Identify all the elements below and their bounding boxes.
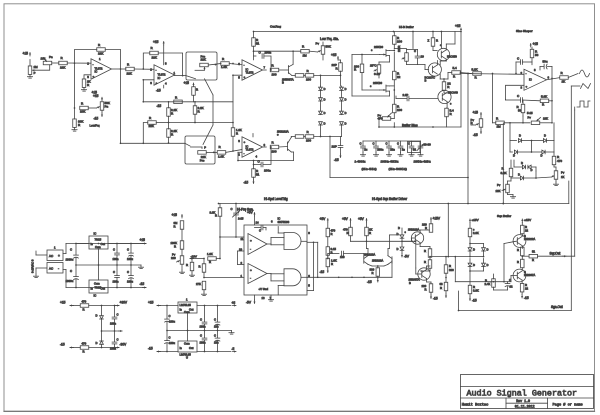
wire xyxy=(317,242,319,277)
svg-text:+15: +15 xyxy=(140,238,146,242)
capacitor C15 100n xyxy=(115,252,120,254)
wire xyxy=(522,140,532,142)
svg-text:-: - xyxy=(93,62,94,66)
svg-text:22: 22 xyxy=(525,229,529,233)
resistor R55 220 xyxy=(429,284,433,293)
svg-text:D: D xyxy=(398,226,400,230)
capacitor C 1n xyxy=(398,145,403,147)
svg-text:D: D xyxy=(521,161,523,165)
resistor R15 100 xyxy=(270,68,279,72)
wire xyxy=(378,62,380,65)
wire xyxy=(157,305,178,307)
ground xyxy=(400,153,402,155)
transistor Q12 2N2222A xyxy=(513,235,526,248)
resistor R49 cmp xyxy=(326,247,330,256)
svg-text:1M: 1M xyxy=(497,125,502,129)
diode D4 xyxy=(319,122,323,125)
svg-text:+15: +15 xyxy=(331,53,337,57)
power +5V terminal xyxy=(366,219,368,223)
diode D11 xyxy=(514,150,517,154)
power +15 terminal xyxy=(101,97,103,101)
svg-text:IC: IC xyxy=(158,76,161,80)
wire xyxy=(440,32,442,49)
svg-text:0-18VAC 0: 0-18VAC 0 xyxy=(31,259,35,273)
wire xyxy=(35,65,50,70)
wire xyxy=(35,268,37,274)
wire xyxy=(393,90,395,104)
svg-text:100u: 100u xyxy=(169,341,175,345)
wire xyxy=(254,161,262,165)
svg-text:C: C xyxy=(117,313,119,317)
svg-text:1u: 1u xyxy=(364,148,368,152)
wire xyxy=(121,142,186,144)
wire xyxy=(270,274,272,281)
svg-text:50u: 50u xyxy=(543,60,548,64)
svg-text:D: D xyxy=(324,87,326,91)
svg-text:2-15: 2-15 xyxy=(238,217,244,221)
wire buffer bias rail xyxy=(379,126,461,128)
capacitor C23 100n xyxy=(202,321,207,323)
wire xyxy=(460,32,462,128)
ground xyxy=(362,153,364,155)
potentiometer P6 10K xyxy=(506,184,510,193)
svg-text:5.1K: 5.1K xyxy=(472,68,478,72)
diode D12 xyxy=(542,150,545,154)
svg-text:D: D xyxy=(345,111,347,115)
wire pin9 out xyxy=(307,241,318,243)
svg-text:C: C xyxy=(169,336,171,340)
svg-text:+5V: +5V xyxy=(342,217,349,221)
svg-text:D: D xyxy=(397,232,399,236)
svg-text:C: C xyxy=(127,248,129,252)
svg-text:-30V: -30V xyxy=(120,343,128,347)
svg-text:-15: -15 xyxy=(140,282,145,286)
wire sgn out xyxy=(459,310,572,312)
wire xyxy=(448,72,452,74)
svg-text:Pn: Pn xyxy=(49,55,53,59)
wire xyxy=(401,250,403,253)
trimmer VR5 220R xyxy=(405,53,409,62)
potentiometer P4 50K xyxy=(321,46,325,55)
svg-text:C: C xyxy=(113,248,115,252)
wire xyxy=(267,243,271,245)
wire xyxy=(429,257,431,260)
svg-text:22K: 22K xyxy=(201,58,206,62)
svg-text:+: + xyxy=(250,268,252,272)
wire xyxy=(163,45,165,65)
jfet Q3 2SK30 xyxy=(385,50,387,57)
svg-text:R: R xyxy=(83,308,85,312)
svg-text:100: 100 xyxy=(340,255,345,259)
wire xyxy=(340,137,342,146)
svg-text:R: R xyxy=(174,225,176,229)
svg-text:100: 100 xyxy=(306,139,311,143)
wire xyxy=(63,253,66,255)
wire xyxy=(430,292,432,295)
border bottom edge xyxy=(4,410,595,412)
capacitor C12 22 xyxy=(505,283,510,285)
svg-text:Out: Out xyxy=(101,287,106,291)
wire xyxy=(194,114,196,122)
svg-text:-15: -15 xyxy=(473,133,478,137)
resistor R36 1M xyxy=(496,121,505,125)
wire xyxy=(406,50,408,53)
resistor R29 22 xyxy=(442,82,446,91)
svg-text:D: D xyxy=(541,154,543,158)
svg-text:D: D xyxy=(345,98,347,102)
transistor Q10 2N2222A xyxy=(411,232,423,244)
svg-text:-5V: -5V xyxy=(404,255,410,259)
svg-text:51: 51 xyxy=(256,42,260,46)
svg-text:U: U xyxy=(186,356,188,360)
resistor R16 1.0K xyxy=(217,151,226,155)
power -15 terminal xyxy=(101,113,103,117)
svg-text:-15: -15 xyxy=(148,347,153,351)
wire com2 xyxy=(187,331,189,342)
resistor R25 22 xyxy=(393,71,397,80)
svg-text:IC: IC xyxy=(95,70,98,74)
wire xyxy=(168,116,170,129)
wire xyxy=(540,66,544,68)
wire xyxy=(532,140,544,142)
zener D22 xyxy=(100,316,104,319)
diode D20 xyxy=(468,263,472,266)
ground xyxy=(83,88,85,90)
svg-text:+15: +15 xyxy=(60,301,66,305)
wire xyxy=(157,351,178,353)
wire xyxy=(208,64,221,66)
svg-text:100n: 100n xyxy=(200,325,206,329)
wire xyxy=(361,73,363,91)
resistor R45 27K xyxy=(202,281,206,290)
svg-text:+5: +5 xyxy=(232,301,236,305)
svg-text:11: 11 xyxy=(241,237,244,241)
wire xyxy=(254,55,257,57)
wire xyxy=(313,242,315,290)
svg-text:D: D xyxy=(324,98,326,102)
svg-text:+5V: +5V xyxy=(358,217,365,221)
wire xyxy=(253,165,255,169)
resistor R65 22 xyxy=(520,283,524,292)
svg-text:300: 300 xyxy=(449,268,454,272)
svg-text:C: C xyxy=(214,334,216,338)
capacitor C18 100u xyxy=(129,275,134,277)
wire xyxy=(447,204,449,257)
potentiometer P5 10K xyxy=(479,119,483,128)
svg-text:B: B xyxy=(282,81,284,85)
wire xyxy=(36,254,47,256)
capacitor C2 100n xyxy=(260,162,262,167)
resistor R63 xyxy=(521,259,525,268)
potentiometer P1 1M xyxy=(28,66,32,75)
wire xyxy=(387,249,389,256)
resistor R51 330 xyxy=(376,268,380,277)
svg-text:D: D xyxy=(544,134,546,138)
resistor R2 2K xyxy=(82,79,86,88)
wire xyxy=(130,244,132,254)
waveform square out xyxy=(577,101,590,107)
wire xyxy=(393,32,395,36)
svg-text:C: C xyxy=(200,334,202,338)
wire xyxy=(469,271,471,285)
svg-text:Out: Out xyxy=(101,242,106,246)
svg-text:1M: 1M xyxy=(303,54,308,58)
diode D21 xyxy=(482,263,486,266)
switch box S1 xyxy=(186,52,217,80)
wire xyxy=(396,98,407,100)
resistor R11 2.2K xyxy=(167,129,171,138)
svg-text:-5V: -5V xyxy=(246,301,252,305)
svg-text:5.6K: 5.6K xyxy=(541,95,547,99)
wire pin14 xyxy=(254,216,256,225)
wire wiper stub xyxy=(195,69,205,71)
wire long rail xyxy=(219,203,569,205)
wire xyxy=(518,151,532,153)
svg-text:+15: +15 xyxy=(473,111,479,115)
svg-text:Z: Z xyxy=(428,39,430,43)
diode D10 xyxy=(543,139,546,143)
wire xyxy=(571,85,580,87)
transistor Q1 2N5087 xyxy=(287,66,289,74)
wire xyxy=(143,101,233,103)
svg-text:1000u: 1000u xyxy=(66,258,74,262)
svg-text:10u: 10u xyxy=(214,341,219,345)
resistor R14 51 xyxy=(252,38,256,47)
title block outer box xyxy=(461,375,594,409)
resistor R23 100 xyxy=(393,36,397,45)
svg-text:2SK30: 2SK30 xyxy=(373,81,382,85)
svg-text:Audio Signal Generator: Audio Signal Generator xyxy=(467,389,578,399)
power +15 terminal xyxy=(460,28,462,32)
svg-text:10n: 10n xyxy=(390,148,395,152)
svg-text:10K: 10K xyxy=(496,189,501,193)
wire xyxy=(352,95,390,97)
trimmer VR7 1K xyxy=(554,171,558,180)
svg-text:+: + xyxy=(156,81,158,85)
wire xyxy=(204,306,206,323)
resistor R50 1.0K xyxy=(326,258,330,267)
svg-text:2.2P: 2.2P xyxy=(403,93,409,97)
svg-text:100u: 100u xyxy=(127,257,133,261)
svg-text:K3C340: K3C340 xyxy=(448,91,458,95)
svg-text:D: D xyxy=(96,341,98,345)
transistor Q6 K3C350 xyxy=(437,48,449,60)
svg-text:1.0K: 1.0K xyxy=(221,65,227,69)
resistor R48 1K xyxy=(365,227,369,236)
svg-text:Sine Shaper: Sine Shaper xyxy=(516,29,533,33)
wire xyxy=(521,280,523,283)
svg-text:1K: 1K xyxy=(562,80,566,84)
transistor Q13 2N2907A xyxy=(513,269,526,282)
resistor R28 5.4 xyxy=(452,71,461,75)
resistor R17 100 xyxy=(270,145,279,149)
wire xyxy=(367,249,369,256)
regulator U7 LM78L05 xyxy=(178,302,197,313)
wire xyxy=(277,227,279,234)
wire xyxy=(156,122,168,124)
wire xyxy=(116,244,118,254)
svg-text:R: R xyxy=(517,248,519,252)
svg-text:-: - xyxy=(250,247,251,251)
svg-text:-15: -15 xyxy=(472,299,477,303)
ground xyxy=(512,195,514,197)
resistor R42 1.0K xyxy=(208,257,217,261)
svg-text:R: R xyxy=(347,231,349,235)
transistor Q2 2N2222A xyxy=(287,142,289,151)
svg-text:22: 22 xyxy=(525,287,529,291)
wire xyxy=(277,286,279,296)
waveform triangle out xyxy=(581,84,591,89)
wire xyxy=(502,123,504,204)
wire xyxy=(470,256,484,258)
svg-text:(4Hz-400KHz): (4Hz-400KHz) xyxy=(389,167,407,171)
wire xyxy=(401,228,403,235)
diode D1 xyxy=(319,87,323,90)
wire xyxy=(454,257,456,282)
wire xyxy=(469,251,471,257)
svg-text:R: R xyxy=(215,214,217,218)
wire pin10 hysteresis xyxy=(238,250,245,252)
svg-text:22K: 22K xyxy=(60,66,65,70)
wire xyxy=(75,244,77,256)
wire xyxy=(267,273,271,275)
wire xyxy=(181,264,183,270)
resistor R8b xyxy=(192,87,196,96)
svg-text:Sgn.Out: Sgn.Out xyxy=(551,305,563,309)
svg-text:R: R xyxy=(369,231,371,235)
svg-text:C: C xyxy=(386,142,388,146)
resistor R44 xyxy=(202,264,206,273)
resistor R1 22K xyxy=(59,61,68,65)
regulator U5 7815 xyxy=(89,236,108,249)
wire xyxy=(521,258,523,260)
svg-text:R: R xyxy=(186,263,188,267)
regulator U8 LM79L05 xyxy=(178,341,197,352)
wire xyxy=(521,255,523,258)
wire xyxy=(181,229,183,241)
wire xyxy=(235,204,237,214)
potentiometer P3 50K xyxy=(100,102,104,111)
connector J1 AC xyxy=(47,250,63,261)
wire xyxy=(470,243,484,245)
wire xyxy=(341,91,343,98)
svg-text:+15: +15 xyxy=(455,24,461,28)
wire base xyxy=(415,268,417,274)
svg-text:R: R xyxy=(372,271,374,275)
svg-text:+: + xyxy=(93,75,95,79)
wire xyxy=(570,86,572,311)
svg-text:C: C xyxy=(259,229,261,233)
wire xyxy=(375,141,377,146)
svg-text:D: D xyxy=(473,263,475,267)
svg-text:D: D xyxy=(519,134,521,138)
svg-text:C: C xyxy=(408,142,410,146)
wire xyxy=(75,50,97,64)
resistor R60 2.4K xyxy=(492,279,496,288)
wire pin6 out xyxy=(307,276,392,278)
svg-text:1-400Hz: 1-400Hz xyxy=(355,160,366,164)
svg-text:LM78L05: LM78L05 xyxy=(180,303,192,307)
wire xyxy=(407,49,418,51)
wire xyxy=(439,61,441,65)
svg-text:R: R xyxy=(424,260,426,264)
power -15 terminal xyxy=(430,295,432,299)
wire xyxy=(166,306,168,320)
wire xyxy=(344,253,364,255)
wire xyxy=(253,32,255,38)
wire base left xyxy=(328,253,339,255)
svg-text:K3C350: K3C350 xyxy=(447,55,457,59)
wire xyxy=(419,243,421,247)
svg-text:-15: -15 xyxy=(156,89,161,93)
wire xyxy=(52,62,59,64)
svg-text:22P: 22P xyxy=(332,145,337,149)
wire xyxy=(505,98,507,101)
svg-text:R: R xyxy=(532,258,534,262)
power -5V terminal xyxy=(254,300,256,304)
svg-text:100n: 100n xyxy=(113,280,119,284)
ground xyxy=(420,153,422,155)
svg-text:+: + xyxy=(58,254,60,258)
ground xyxy=(74,128,76,130)
svg-text:D: D xyxy=(345,87,347,91)
wire xyxy=(229,64,242,65)
svg-text:C: C xyxy=(70,269,72,273)
wire xyxy=(568,74,578,78)
svg-text:-5: -5 xyxy=(232,347,235,351)
wire xyxy=(143,53,150,69)
power +5V terminal xyxy=(350,219,352,223)
wire xyxy=(509,141,511,153)
wire com xyxy=(187,313,189,331)
transistor Q5 BC237C xyxy=(428,63,441,76)
svg-text:1.0K: 1.0K xyxy=(207,252,213,256)
svg-text:C: C xyxy=(169,314,171,318)
svg-text:C: C xyxy=(214,318,216,322)
svg-text:+30V: +30V xyxy=(120,301,128,305)
svg-text:5-15: 5-15 xyxy=(527,111,533,115)
svg-text:D: D xyxy=(487,263,489,267)
resistor R59 3.9K xyxy=(468,285,472,294)
wire xyxy=(168,102,170,108)
svg-text:D: D xyxy=(397,247,399,251)
wire sqr out node xyxy=(522,255,529,257)
wire xyxy=(366,222,368,227)
wire xyxy=(105,50,120,70)
svg-text:25"C: 25"C xyxy=(370,64,377,68)
trimmer cap C9 2-15 xyxy=(234,212,239,214)
wire xyxy=(469,259,471,264)
wire xyxy=(75,265,77,277)
svg-text:+: + xyxy=(250,239,252,243)
wire xyxy=(432,32,434,38)
svg-text:D: D xyxy=(531,168,533,172)
svg-text:R: R xyxy=(174,245,176,249)
resistor R13b 1.0K xyxy=(231,128,235,137)
svg-text:Low Frq. Sin.: Low Frq. Sin. xyxy=(320,37,339,41)
resistor R43 xyxy=(190,262,194,271)
svg-text:1n: 1n xyxy=(402,148,406,152)
svg-text:50K: 50K xyxy=(326,45,331,49)
svg-text:1.0K: 1.0K xyxy=(218,155,224,159)
waveform sine out xyxy=(580,70,590,77)
resistor R20 220 xyxy=(339,63,343,72)
wire xyxy=(67,62,91,64)
wire xyxy=(204,331,206,339)
wire xyxy=(193,95,195,102)
wire xyxy=(130,265,132,276)
wire mid rail xyxy=(167,330,232,332)
